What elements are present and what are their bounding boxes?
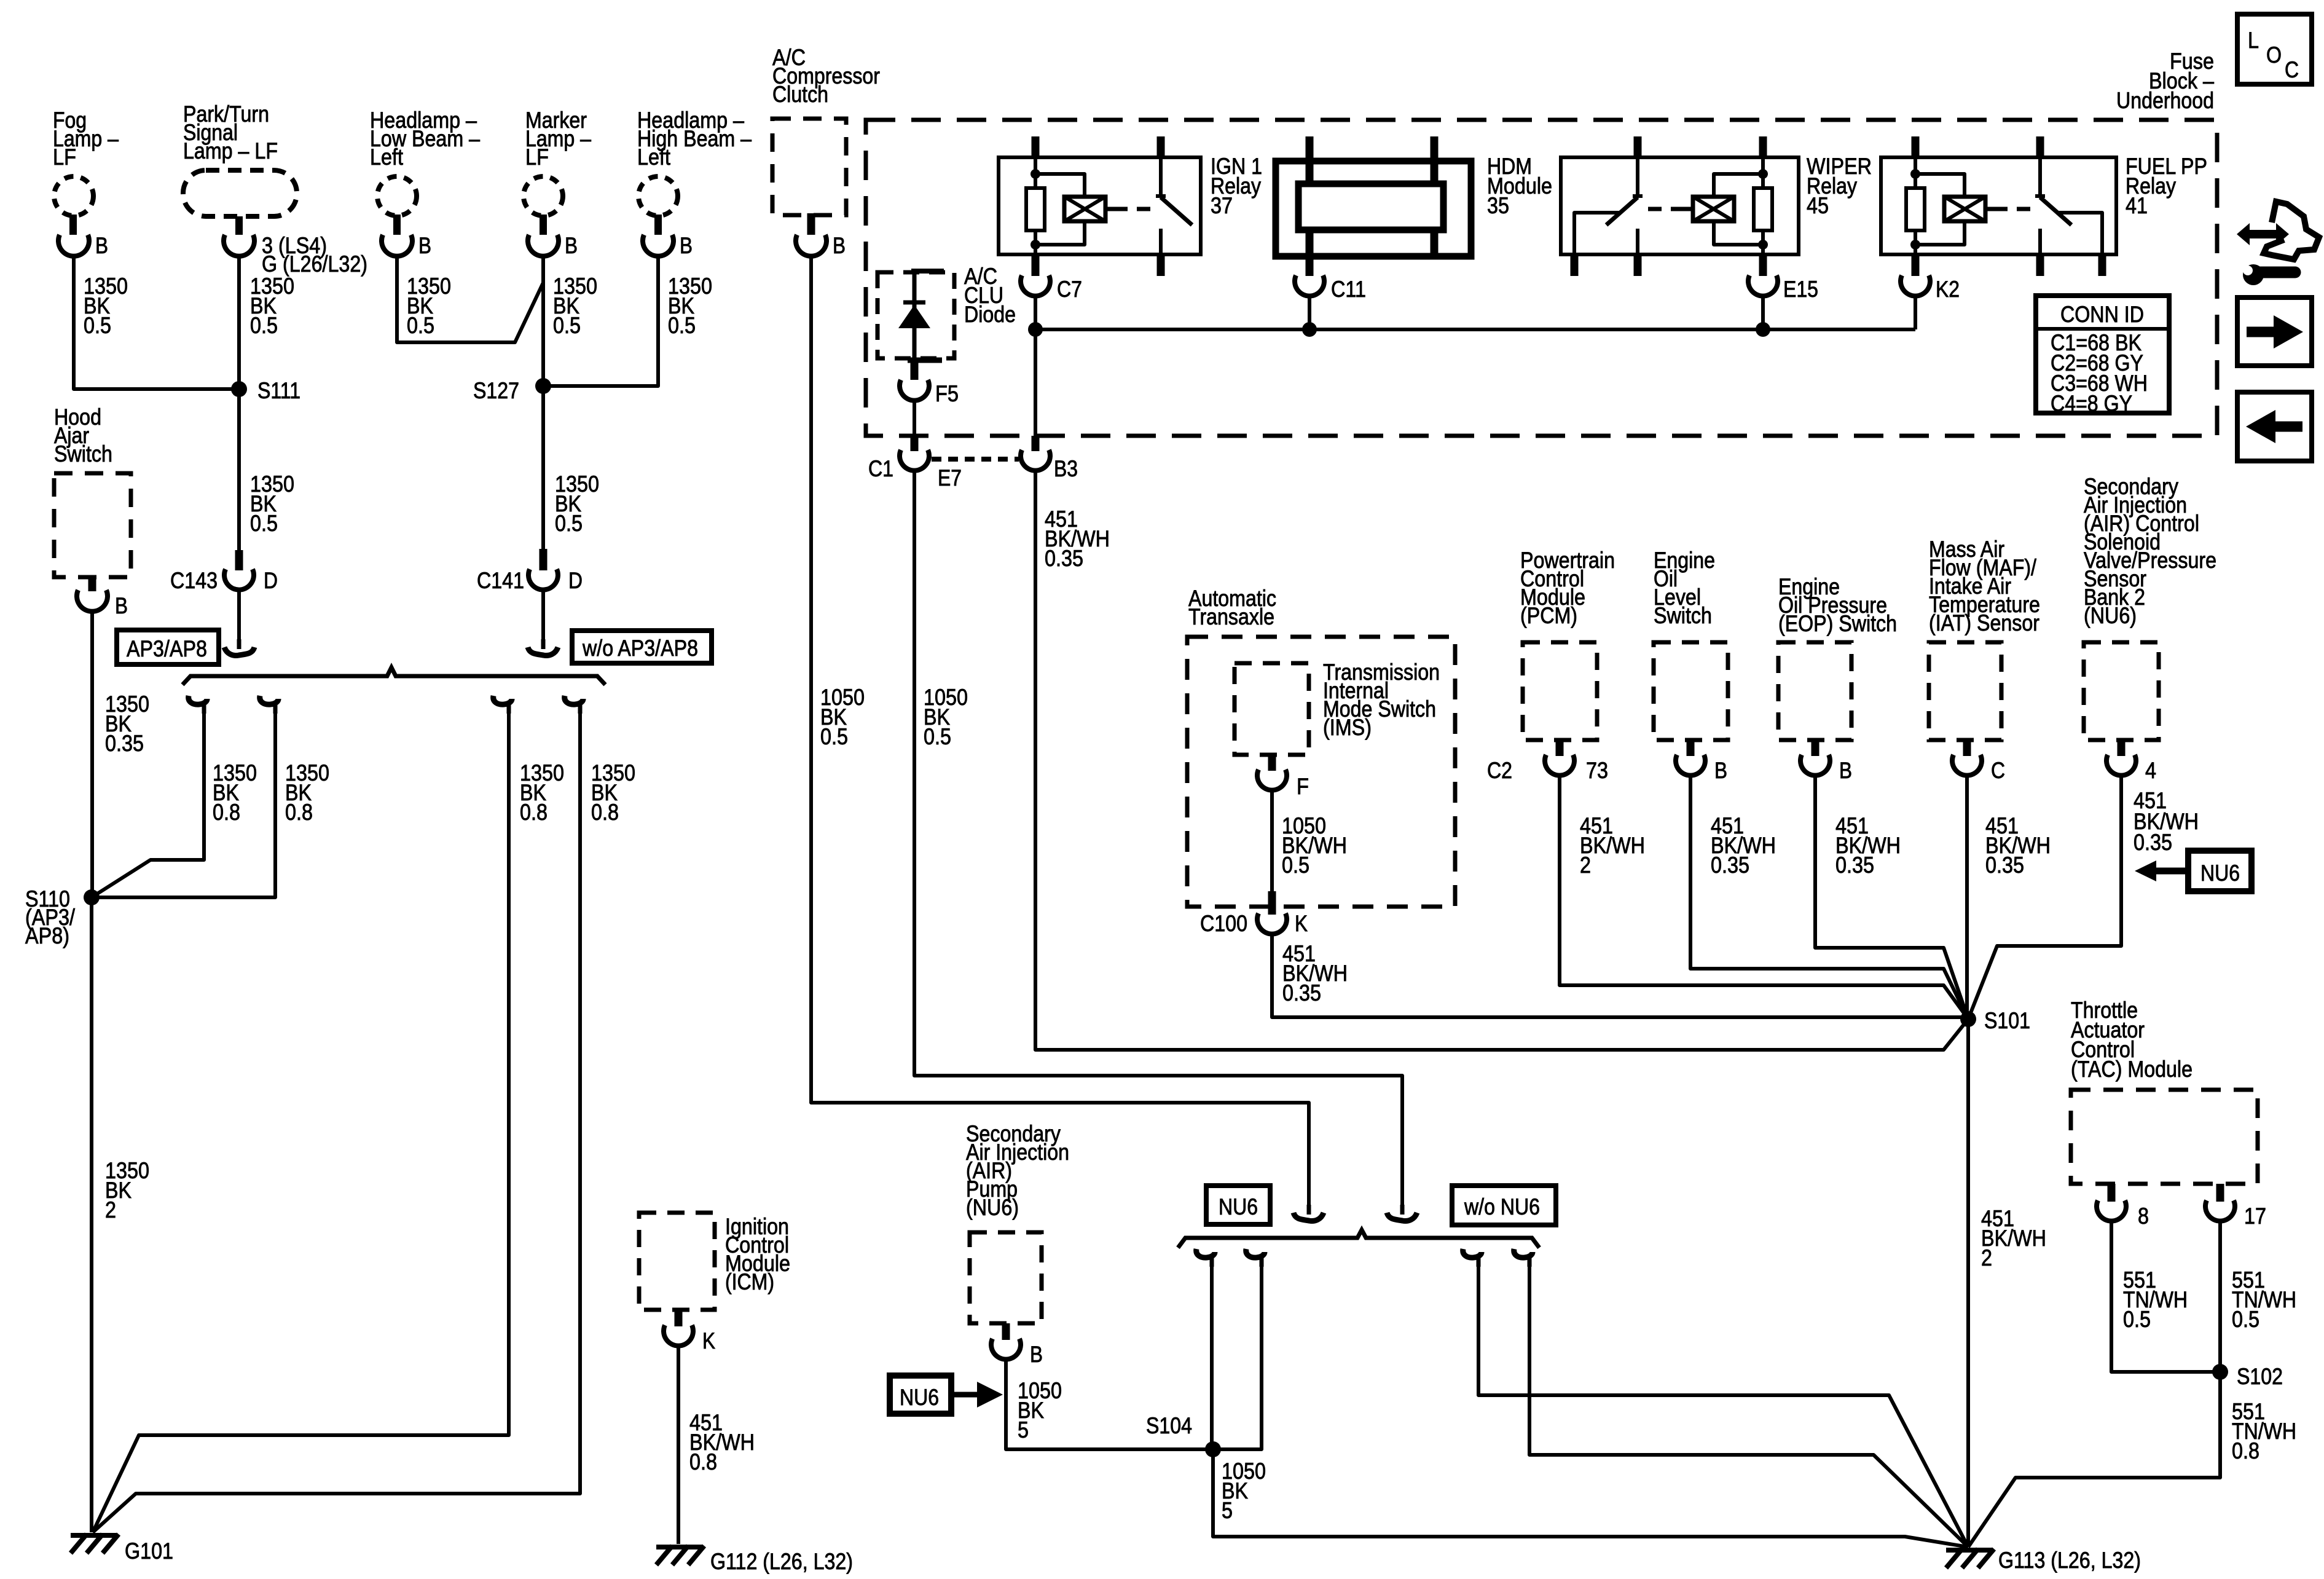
wire E7 to NU6 split (1050 BK 0.5): [914, 470, 1402, 1207]
wire IMS F to C100 (1050 BK/WH 0.5): [1272, 790, 1347, 892]
svg-text:17: 17: [2244, 1203, 2266, 1229]
lamp Fog Lamp - LF: [53, 108, 119, 258]
label box AP3/AP8: [117, 630, 219, 664]
svg-text:C7: C7: [1057, 277, 1082, 302]
wire MAF to S101 (451 BK/WH 0.35): [1967, 775, 2051, 1019]
wire F5 to C1 E7: [913, 400, 916, 438]
ground G112: [656, 1546, 853, 1574]
wire PCM to S101 (451 BK/WH 2): [1560, 775, 1968, 1019]
connector oil level pin B: [1676, 740, 1727, 783]
connector PCM C2 pin 73: [1487, 740, 1608, 783]
fuse block underhood dashed border: [866, 120, 2217, 436]
svg-text:K: K: [1295, 911, 1308, 936]
svg-text:B: B: [418, 233, 431, 258]
lamp Headlamp - Low Beam - Left: [370, 108, 480, 258]
component Engine Oil Level Switch: [1654, 548, 1728, 740]
svg-text:B: B: [115, 593, 128, 618]
icon arrow left: [2237, 392, 2312, 461]
svg-text:C100: C100: [1200, 911, 1247, 936]
svg-text:0.35: 0.35: [1835, 853, 1874, 878]
svg-text:w/o AP3/AP8: w/o AP3/AP8: [582, 636, 698, 661]
svg-text:0.5: 0.5: [553, 313, 581, 338]
ground G101: [71, 1534, 173, 1564]
svg-text:4: 4: [2145, 758, 2156, 783]
svg-text:AP3/AP8: AP3/AP8: [127, 636, 207, 661]
svg-text:NU6: NU6: [1219, 1194, 1258, 1219]
wire hood ajar switch to S110 (1350 BK 0.35): [92, 612, 149, 897]
component A/C CLU Diode: [877, 264, 1016, 360]
svg-text:0.35: 0.35: [1711, 853, 1749, 878]
svg-text:S127: S127: [473, 378, 519, 403]
svg-text:B: B: [565, 233, 578, 258]
svg-text:0.35: 0.35: [1985, 853, 2024, 878]
wire A/C clutch to NU6 split (1050 BK 0.5): [811, 256, 1309, 1207]
svg-text:(PCM): (PCM): [1520, 603, 1577, 628]
svg-text:0.8: 0.8: [689, 1449, 717, 1475]
svg-text:G (L26/L32): G (L26/L32): [262, 251, 367, 277]
svg-text:2: 2: [1580, 853, 1591, 878]
svg-text:(IAT) Sensor: (IAT) Sensor: [1929, 610, 2039, 636]
label box w/o AP3/AP8: [572, 631, 712, 663]
wire C143 with option hook: [224, 590, 254, 655]
svg-text:0.35: 0.35: [1045, 546, 1083, 571]
icon wrench and arrows: [2237, 202, 2319, 285]
svg-text:K: K: [702, 1328, 715, 1353]
wire ground branch 3 (1350 BK 0.8) to G101: [93, 696, 564, 1532]
svg-text:C: C: [2285, 57, 2299, 82]
option hook E7 wire end: [1400, 1205, 1405, 1215]
ground G113: [1946, 1548, 2141, 1573]
wire fog lamp to S111 (1350 BK 0.5): [74, 256, 239, 389]
svg-text:NU6: NU6: [900, 1385, 939, 1410]
label box w/o NU6: [1452, 1186, 1556, 1225]
svg-text:LF: LF: [525, 144, 549, 170]
icon LOC: [2237, 14, 2312, 84]
splice S101: [1960, 1008, 2030, 1033]
svg-text:Diode: Diode: [964, 302, 1016, 327]
svg-text:Clutch: Clutch: [772, 82, 828, 107]
component Throttle Actuator Control (TAC) Module: [2071, 998, 2258, 1184]
relay WIPER Relay 45: [1561, 136, 1872, 276]
wire w/o NU6 branch 2 to G113: [1514, 1249, 1968, 1547]
svg-text:C143: C143: [170, 568, 218, 593]
svg-text:(TAC) Module: (TAC) Module: [2071, 1057, 2192, 1082]
svg-text:G112 (L26, L32): G112 (L26, L32): [710, 1549, 853, 1574]
wire E15 to bus: [1761, 296, 1765, 329]
component Engine Oil Pressure (EOP) Switch: [1778, 574, 1897, 740]
svg-text:S104: S104: [1146, 1413, 1192, 1438]
wire TAC 8 to S102 (551 TN/WH 0.5): [2111, 1221, 2220, 1372]
connector ICM pin K: [664, 1310, 715, 1353]
wire AIR pump to S104 (1050 BK 5): [1006, 1359, 1213, 1449]
svg-text:CONN ID: CONN ID: [2060, 302, 2144, 327]
svg-text:C1: C1: [868, 456, 893, 481]
svg-text:C: C: [1991, 758, 2005, 783]
svg-text:G101: G101: [125, 1538, 173, 1564]
wire S101 to G113 (451 BK/WH 2): [1968, 1019, 2046, 1547]
wire TAC 17 to S102 (551 TN/WH 0.5): [2220, 1221, 2296, 1372]
svg-text:8: 8: [2138, 1203, 2149, 1229]
svg-text:w/o NU6: w/o NU6: [1464, 1194, 1540, 1219]
svg-text:0.5: 0.5: [820, 724, 848, 749]
svg-text:0.8: 0.8: [520, 800, 548, 825]
svg-text:5: 5: [1222, 1498, 1233, 1523]
splice S102: [2212, 1364, 2283, 1389]
connector AIR pump pin B: [991, 1323, 1043, 1367]
connector MAF pin C: [1952, 740, 2005, 783]
component Mass Air Flow (MAF)/Intake Air Temperature (IAT) Sensor: [1929, 537, 2040, 740]
svg-text:B: B: [1714, 758, 1727, 783]
connector F5: [900, 360, 959, 406]
option brace (NU6 split): [1178, 1230, 1539, 1248]
svg-text:0.5: 0.5: [555, 511, 583, 536]
option brace (AP3/AP8 split): [183, 667, 605, 685]
svg-text:Lamp – LF: Lamp – LF: [183, 138, 278, 163]
connector AIR solenoid pin 4: [2106, 740, 2156, 783]
component Ignition Control Module (ICM): [639, 1213, 790, 1310]
svg-text:Left: Left: [370, 144, 404, 170]
svg-text:K2: K2: [1936, 277, 1960, 302]
svg-text:C4=8 GY: C4=8 GY: [2051, 391, 2132, 416]
svg-text:F: F: [1297, 774, 1309, 799]
connector C1 pin B3: [1021, 329, 1078, 481]
wire marker lamp to S127 and C141 (1350 BK 0.5): [543, 256, 599, 549]
svg-text:Switch: Switch: [1654, 603, 1712, 628]
component Transmission Internal Mode Switch (IMS): [1235, 660, 1440, 755]
lamp Headlamp - High Beam - Left: [637, 108, 752, 258]
component A/C Compressor Clutch: [772, 45, 880, 258]
relay IGN 1 Relay 37: [999, 136, 1262, 276]
svg-text:B: B: [1839, 758, 1852, 783]
connector C1 pin E7: [868, 436, 962, 490]
svg-text:(IMS): (IMS): [1323, 715, 1372, 740]
svg-text:0.5: 0.5: [924, 724, 951, 749]
svg-text:(EOP) Switch: (EOP) Switch: [1778, 611, 1897, 636]
svg-text:F5: F5: [935, 381, 959, 406]
connector TAC pin 8: [2097, 1184, 2149, 1229]
connector C7: [1021, 254, 1082, 302]
svg-text:B: B: [680, 233, 693, 258]
svg-text:5: 5: [1018, 1417, 1029, 1443]
svg-text:0.5: 0.5: [2123, 1307, 2151, 1332]
wire AIR solenoid to S101 (451 BK/WH 0.35): [1968, 775, 2199, 1019]
component Secondary Air Injection (AIR) Pump (NU6): [966, 1121, 1069, 1323]
svg-text:0.5: 0.5: [1282, 853, 1309, 878]
svg-text:D: D: [568, 568, 583, 593]
svg-text:2: 2: [105, 1197, 116, 1223]
wire high beam to S127 (1350 BK 0.5): [543, 256, 712, 386]
component Powertrain Control Module (PCM): [1520, 548, 1615, 740]
wire oil level to S101 (451 BK/WH 0.35): [1690, 775, 1968, 1019]
svg-text:(ICM): (ICM): [725, 1269, 774, 1294]
wire C100 to S101 (451 BK/WH 0.35): [1272, 934, 1968, 1017]
svg-text:41: 41: [2126, 193, 2148, 218]
svg-text:O: O: [2266, 42, 2282, 68]
svg-text:73: 73: [1586, 758, 1608, 783]
connector EOP pin B: [1800, 740, 1852, 783]
svg-text:E7: E7: [938, 465, 962, 490]
label box NU6 (split): [1206, 1186, 1270, 1224]
svg-text:(NU6): (NU6): [2084, 603, 2137, 628]
svg-text:0.5: 0.5: [250, 313, 278, 338]
svg-text:0.35: 0.35: [105, 731, 144, 756]
svg-text:Underhood: Underhood: [2116, 88, 2214, 113]
wire ICM to G112 (451 BK/WH 0.8): [678, 1345, 755, 1544]
svg-text:LF: LF: [53, 144, 76, 170]
svg-text:C2: C2: [1487, 758, 1512, 783]
wire ignition bus inside fuse block: [1028, 322, 1915, 337]
svg-text:S101: S101: [1984, 1008, 2030, 1033]
wire B3 to S101 (451 BK/WH 0.35): [1035, 470, 1968, 1050]
connector IMS pin F: [1257, 755, 1309, 799]
svg-text:NU6: NU6: [2200, 860, 2240, 886]
component Secondary Air Injection (AIR) Control Solenoid Valve/Pressure Sensor Bank 2 (NU6): [2084, 474, 2216, 740]
option hook A/C clutch wire end: [1307, 1205, 1311, 1215]
connector C100 pin K: [1200, 891, 1308, 936]
svg-text:Transaxle: Transaxle: [1188, 604, 1274, 629]
wire ground branch 1 (1350 BK 0.8) to S110: [92, 696, 257, 897]
wire S110 to G101 (1350 BK 2): [92, 897, 149, 1532]
svg-text:C11: C11: [1331, 277, 1366, 302]
wire S102 to G113 (551 TN/WH 0.8): [1968, 1372, 2296, 1547]
svg-text:C141: C141: [477, 568, 524, 593]
connector C143 pin D: [170, 550, 278, 593]
wire NU6 branch 1 to S104: [1196, 1249, 1215, 1449]
svg-text:35: 35: [1487, 193, 1509, 218]
wire S111 to C143 (1350 BK 0.5): [239, 389, 294, 550]
module HDM Module 35: [1276, 136, 1552, 276]
svg-text:Switch: Switch: [54, 441, 112, 467]
svg-text:0.5: 0.5: [2232, 1307, 2259, 1332]
svg-text:B: B: [833, 233, 846, 258]
splice S110: [25, 886, 100, 948]
relay FUEL PP Relay 41: [1881, 136, 2207, 276]
component Hood Ajar Switch: [54, 404, 131, 618]
label Fuse Block - Underhood: [2116, 49, 2214, 113]
svg-text:0.5: 0.5: [250, 511, 278, 536]
conn id table: [2036, 296, 2169, 416]
svg-text:0.5: 0.5: [668, 313, 696, 338]
wire low beam to marker wire (1350 BK 0.5): [397, 256, 543, 342]
svg-text:D: D: [264, 568, 278, 593]
lamp Park/Turn Signal Lamp - LF: [183, 101, 367, 277]
svg-text:S111: S111: [257, 378, 300, 403]
svg-text:0.8: 0.8: [285, 800, 313, 825]
svg-text:37: 37: [1211, 193, 1233, 218]
svg-text:0.8: 0.8: [591, 800, 619, 825]
connector TAC pin 17: [2205, 1184, 2266, 1229]
svg-text:0.5: 0.5: [84, 313, 111, 338]
component Automatic Transaxle: [1187, 586, 1455, 907]
icon arrow right: [2237, 297, 2312, 366]
svg-text:Left: Left: [637, 144, 671, 170]
connector C11: [1295, 275, 1366, 302]
wire w/o NU6 branch 1 to G113: [1463, 1249, 1968, 1547]
wire C141 with option hook: [528, 590, 558, 655]
label box NU6 with arrow (solenoid): [2135, 851, 2251, 891]
wire park/turn lamp to S111 (1350 BK 0.5): [239, 256, 294, 389]
splice S104: [1146, 1413, 1221, 1457]
svg-text:E15: E15: [1783, 277, 1818, 302]
wire C7 to bus: [1034, 296, 1037, 329]
svg-text:0.8: 0.8: [2232, 1438, 2259, 1463]
connector C1 grouping dash: [932, 457, 1019, 462]
wire NU6 branch 2 to S104 line: [1213, 1249, 1265, 1449]
connector C141 pin D: [477, 549, 583, 593]
svg-text:0.35: 0.35: [2134, 830, 2172, 855]
wire K2 to bus end: [1914, 296, 1917, 329]
svg-text:G113 (L26, L32): G113 (L26, L32): [1998, 1548, 2141, 1573]
wire EOP to S101 (451 BK/WH 0.35): [1815, 775, 1968, 1019]
splice S127: [473, 378, 551, 403]
wire ground branch 2 (1350 BK 0.8) to S110: [92, 696, 329, 897]
svg-text:AP8): AP8): [25, 923, 69, 948]
wire S104 to G113 (1050 BK 5): [1213, 1449, 1968, 1547]
svg-text:S102: S102: [2237, 1364, 2283, 1389]
lamp Marker Lamp - LF: [524, 108, 591, 258]
svg-text:B: B: [1030, 1342, 1043, 1367]
connector E15: [1748, 275, 1818, 302]
svg-text:45: 45: [1807, 193, 1829, 218]
wire C11 to bus: [1308, 296, 1311, 329]
splice S111: [231, 378, 300, 403]
wire ground branch 4 (1350 BK 0.8) to G101: [93, 696, 635, 1532]
connector K2: [1901, 275, 1960, 302]
svg-text:L: L: [2248, 28, 2259, 53]
svg-text:B3: B3: [1054, 456, 1078, 481]
svg-text:2: 2: [1981, 1245, 1992, 1270]
svg-text:0.8: 0.8: [213, 800, 240, 825]
svg-text:0.35: 0.35: [1282, 980, 1321, 1006]
svg-text:(NU6): (NU6): [966, 1195, 1019, 1220]
label box NU6 with arrow (pump): [890, 1376, 1003, 1414]
svg-text:0.5: 0.5: [407, 313, 434, 338]
svg-text:B: B: [95, 233, 108, 258]
